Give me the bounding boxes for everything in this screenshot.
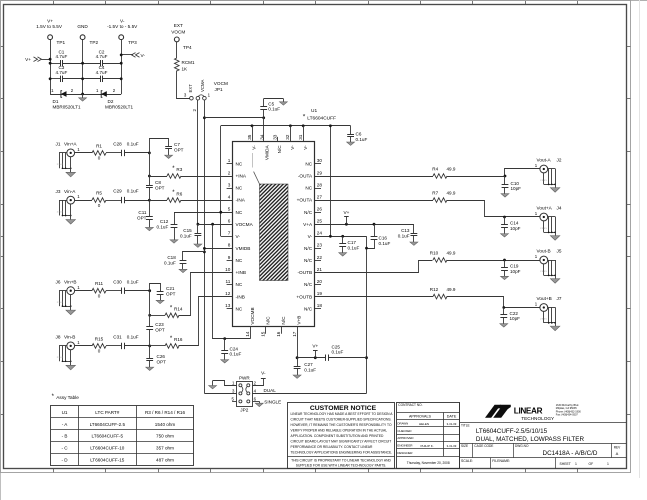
svg-text:TP4: TP4 [183,45,192,50]
svg-text:C13: C13 [401,228,410,233]
svg-text:SINGLE: SINGLE [264,400,281,405]
svg-text:J5: J5 [557,249,562,254]
svg-text:C14: C14 [510,221,519,226]
svg-text:750 ohm: 750 ohm [156,434,174,439]
svg-text:J2: J2 [557,158,562,163]
svg-text:NC: NC [305,162,312,167]
svg-text:N/C: N/C [304,306,313,311]
svg-text:MBR0520LT1: MBR0520LT1 [53,105,81,110]
svg-text:C25: C25 [332,344,341,349]
svg-text:R3: R3 [176,167,182,172]
svg-text:SUPPLIED FOR USE WITH LINEAR T: SUPPLIED FOR USE WITH LINEAR TECHNOLOGY … [296,463,387,467]
svg-text:CIRCUIT THAT MEETS CUSTOMER-SU: CIRCUIT THAT MEETS CUSTOMER-SUPPLIED SPE… [291,418,392,422]
svg-text:OPT: OPT [155,327,165,332]
svg-text:LINEAR: LINEAR [514,406,543,415]
svg-text:49.9: 49.9 [447,250,456,255]
svg-text:14: 14 [245,331,250,337]
svg-text:4.7uF: 4.7uF [96,54,108,59]
svg-text:19: 19 [317,291,323,296]
svg-text:- B: - B [62,434,68,439]
svg-text:0.1uF: 0.1uF [127,189,139,194]
svg-text:MBR0520LT1: MBR0520LT1 [105,105,133,110]
svg-text:V+: V+ [25,57,31,62]
svg-text:17: 17 [292,331,297,337]
svg-text:1.5V to 5.5V: 1.5V to 5.5V [36,24,63,29]
svg-text:OPT: OPT [166,292,176,297]
svg-text:TECHNOLOGY APPLICATIONS ENGINE: TECHNOLOGY APPLICATIONS ENGINEERING FOR … [291,451,393,455]
svg-text:C8: C8 [155,180,161,185]
svg-text:2 3 4 5: 2 3 4 5 [57,211,64,213]
svg-text:- A: - A [62,422,69,427]
svg-text:J4: J4 [557,206,562,211]
svg-text:VMIDB: VMIDB [236,246,251,251]
svg-text:EXT: EXT [188,84,193,93]
svg-text:HELEN: HELEN [419,422,429,426]
svg-text:TP2: TP2 [90,40,99,45]
svg-text:DUAL: DUAL [264,388,277,393]
svg-text:C17: C17 [348,240,357,245]
svg-text:32: 32 [285,134,290,140]
svg-text:R6: R6 [176,191,182,196]
svg-text:APPROVED: APPROVED [397,436,413,440]
svg-text:V-: V- [303,145,308,150]
svg-text:LT6604CUFF-2.5: LT6604CUFF-2.5 [90,422,126,427]
svg-text:31: 31 [298,134,303,140]
svg-text:OF: OF [589,462,594,466]
svg-text:J3: J3 [56,189,61,194]
svg-text:0.1uF: 0.1uF [230,352,242,357]
svg-text:0.1uF: 0.1uF [379,241,391,246]
svg-text:18: 18 [317,303,323,308]
svg-text:2 3 4 5: 2 3 4 5 [57,164,64,166]
svg-text:Vin-B: Vin-B [64,335,75,340]
svg-text:C19: C19 [510,263,519,268]
svg-text:11: 11 [226,279,231,284]
svg-text:C28: C28 [113,142,122,147]
svg-text:23: 23 [317,243,323,248]
svg-text:33: 33 [272,134,277,140]
svg-text:N/C: N/C [281,316,286,325]
svg-text:DWG.NO: DWG.NO [515,444,529,448]
svg-text:PHILIP K.: PHILIP K. [420,444,433,448]
svg-text:0.1uF: 0.1uF [356,137,368,142]
svg-text:C11: C11 [138,210,147,215]
svg-text:3: 3 [228,182,231,187]
svg-text:NC: NC [236,282,243,287]
svg-text:V-: V- [120,19,125,24]
svg-text:21: 21 [317,267,323,272]
svg-text:Vout-A: Vout-A [537,158,552,163]
svg-text:CAGE CODE: CAGE CODE [474,444,493,448]
svg-text:C6: C6 [356,131,362,136]
svg-text:N/C: N/C [277,145,282,154]
svg-text:V-: V- [308,234,313,239]
svg-text:+INA: +INA [236,174,247,179]
svg-text:Vout+A: Vout+A [537,206,553,211]
svg-text:NC: NC [236,210,243,215]
svg-text:12: 12 [225,291,231,296]
svg-text:0.1uF: 0.1uF [332,350,344,355]
svg-text:VMIDA: VMIDA [264,144,269,160]
svg-text:FILENAME:: FILENAME: [492,459,510,463]
svg-text:VOCMA: VOCMA [236,222,254,227]
svg-text:OPT: OPT [174,148,184,153]
svg-text:DESIGNER: DESIGNER [397,451,412,455]
svg-text:6: 6 [228,219,231,224]
svg-text:V-: V- [261,371,266,376]
svg-text:JP2: JP2 [240,408,248,413]
svg-text:APPROVALS: APPROVALS [409,414,432,418]
svg-text:J6: J6 [56,279,61,284]
svg-text:R12: R12 [430,287,439,292]
svg-text:R5: R5 [96,191,102,196]
svg-text:-INA: -INA [236,198,246,203]
svg-text:R14: R14 [174,307,183,312]
svg-text:13: 13 [225,303,231,308]
svg-text:TECHNOLOGY: TECHNOLOGY [521,416,555,421]
svg-text:2: 2 [228,170,231,175]
svg-text:DUAL, MATCHED, LOWPASS FILTER: DUAL, MATCHED, LOWPASS FILTER [476,436,585,443]
svg-text:-OUTA: -OUTA [298,174,313,179]
svg-text:APPLICATION. COMPONENT SUBSTIT: APPLICATION. COMPONENT SUBSTITUTION AND … [291,434,385,438]
svg-text:C30: C30 [113,279,122,284]
svg-text:+INB: +INB [236,270,247,275]
svg-text:30: 30 [317,158,323,163]
svg-text:OPT: OPT [155,186,165,191]
svg-text:10pF: 10pF [511,186,522,191]
svg-text:49.9: 49.9 [447,191,456,196]
svg-text:C10: C10 [511,181,520,186]
svg-text:0.1uF: 0.1uF [268,107,280,112]
svg-text:5: 5 [228,206,231,211]
svg-text:1540 ohm: 1540 ohm [155,422,176,427]
svg-text:EXT: EXT [174,23,183,28]
svg-text:LTC PART#: LTC PART# [95,410,119,415]
svg-text:2 3 4 5: 2 3 4 5 [57,302,64,304]
svg-text:VOCM: VOCM [171,30,185,35]
svg-text:NC: NC [236,306,243,311]
svg-text:- D: - D [61,458,68,463]
svg-text:V-: V- [290,145,295,150]
svg-text:J8: J8 [56,335,61,340]
svg-text:ENGINEER: ENGINEER [397,444,412,448]
svg-text:Vin+B: Vin+B [64,279,77,284]
svg-text:4: 4 [228,194,231,199]
svg-text:0.1uF: 0.1uF [164,261,176,266]
svg-text:LT6604CUFF: LT6604CUFF [307,116,336,122]
svg-text:CIRCUIT BOARD LAYOUT MAY SIGNI: CIRCUIT BOARD LAYOUT MAY SIGNIFICANTLY A… [291,440,392,444]
svg-text:CUSTOMER NOTICE: CUSTOMER NOTICE [310,405,377,412]
svg-text:1: 1 [575,462,577,466]
svg-text:R15: R15 [95,336,104,341]
svg-text:C5: C5 [268,101,274,106]
svg-text:3-31-09: 3-31-09 [447,444,457,448]
svg-text:+OUTB: +OUTB [296,294,312,299]
svg-text:V+: V+ [47,19,53,24]
svg-text:SHEET: SHEET [560,462,571,466]
svg-text:C26: C26 [157,354,166,359]
svg-text:CONTRACT NO.: CONTRACT NO. [398,403,422,407]
svg-text:C27: C27 [304,362,313,367]
svg-text:C7: C7 [174,142,180,147]
svg-text:V-: V- [236,234,241,239]
svg-text:R10: R10 [430,250,439,255]
svg-text:V+A: V+A [303,222,313,227]
svg-text:10pF: 10pF [510,226,521,231]
svg-text:C31: C31 [113,335,122,340]
svg-text:D1: D1 [53,99,59,104]
svg-text:V-: V- [252,145,257,150]
svg-text:NC: NC [236,258,243,263]
svg-text:NC: NC [305,186,312,191]
svg-text:25: 25 [317,219,323,224]
svg-text:OPT: OPT [137,215,147,220]
svg-text:2 3 4 5: 2 3 4 5 [540,180,547,182]
svg-text:NC: NC [236,186,243,191]
svg-text:2 3 4 5: 2 3 4 5 [57,357,64,359]
svg-text:D2: D2 [108,99,114,104]
svg-text:29: 29 [317,170,323,175]
svg-text:Assy Table: Assy Table [56,395,79,400]
svg-text:10: 10 [225,267,231,272]
svg-text:Thursday, November 20, 2008: Thursday, November 20, 2008 [407,461,450,465]
svg-text:C16: C16 [379,236,388,241]
svg-text:26: 26 [317,206,323,211]
svg-text:R11: R11 [95,281,104,286]
svg-text:C23: C23 [155,322,164,327]
svg-text:10pF: 10pF [510,316,521,321]
svg-text:-INB: -INB [236,294,245,299]
svg-text:0.1uF: 0.1uF [304,368,316,373]
svg-text:8: 8 [228,243,231,248]
svg-text:J1: J1 [56,142,61,147]
svg-text:24: 24 [317,231,323,236]
svg-text:LINEAR TECHNOLOGY HAS MADE A B: LINEAR TECHNOLOGY HAS MADE A BEST EFFORT… [291,412,394,416]
svg-text:0: 0 [98,203,101,208]
svg-text:C18: C18 [167,255,176,260]
svg-text:C15: C15 [183,228,192,233]
svg-text:N/C: N/C [304,246,313,251]
svg-text:0.1uF: 0.1uF [180,234,192,239]
svg-text:C12: C12 [160,219,169,224]
svg-text:1: 1 [607,462,609,466]
svg-text:27: 27 [317,194,323,199]
svg-text:1: 1 [228,158,231,163]
svg-text:V+: V+ [343,210,349,215]
svg-text:REV: REV [614,446,621,450]
svg-text:R3 / R6 / R14 / R16: R3 / R6 / R14 / R16 [145,410,186,415]
svg-text:4.7uF: 4.7uF [56,70,68,75]
svg-text:LT6604CUFF-10: LT6604CUFF-10 [90,446,125,451]
svg-text:LT6604CUFF-2.5/5/10/15: LT6604CUFF-2.5/5/10/15 [476,428,548,435]
svg-text:R1: R1 [96,143,102,148]
svg-text:JP1: JP1 [215,87,223,92]
svg-text:C29: C29 [113,189,122,194]
svg-text:HOWEVER, IT REMAINS THE CUSTOM: HOWEVER, IT REMAINS THE CUSTOMER'S RESPO… [291,423,392,427]
svg-text:2 3 4 5: 2 3 4 5 [540,228,547,230]
svg-text:C24: C24 [230,346,239,351]
svg-text:C22: C22 [510,311,519,316]
svg-text:N/C: N/C [304,210,313,215]
svg-text:22: 22 [317,255,323,260]
svg-text:35: 35 [247,134,252,140]
svg-text:N/C: N/C [265,316,270,325]
svg-text:487 ohm: 487 ohm [156,458,174,463]
svg-text:R16: R16 [174,337,183,342]
svg-text:SCALE:: SCALE: [461,459,473,463]
svg-text:0.1uF: 0.1uF [127,279,139,284]
svg-text:TITLE: TITLE [461,424,470,428]
svg-text:0: 0 [98,156,101,161]
svg-text:V+B: V+B [297,316,302,325]
svg-text:THIS CIRCUIT IS PROPRIETARY TO: THIS CIRCUIT IS PROPRIETARY TO LINEAR TE… [291,459,391,463]
svg-text:PWR: PWR [239,375,250,380]
svg-text:0.1uF: 0.1uF [398,234,410,239]
svg-text:Vin-A: Vin-A [64,189,76,194]
svg-text:A: A [616,451,619,456]
svg-text:Fax: (408)434-0507: Fax: (408)434-0507 [556,414,579,417]
svg-text:J7: J7 [557,296,562,301]
svg-text:V-: V- [141,53,146,58]
svg-text:357 ohm: 357 ohm [156,446,174,451]
svg-text:VOCMB: VOCMB [250,307,255,324]
svg-text:VCMA: VCMA [200,79,205,92]
svg-text:0.1uF: 0.1uF [127,335,139,340]
svg-text:LT6604CUFF-5: LT6604CUFF-5 [92,434,124,439]
svg-text:VOCM: VOCM [214,81,228,86]
svg-text:-1.5V to - 5.5V: -1.5V to - 5.5V [107,24,138,29]
svg-text:U1: U1 [311,108,317,114]
svg-text:20: 20 [317,279,323,284]
svg-text:3-31-09: 3-31-09 [447,422,457,426]
svg-text:4.7uF: 4.7uF [56,54,68,59]
svg-text:0.1uF: 0.1uF [127,142,139,147]
svg-text:2 3 4 5: 2 3 4 5 [540,319,547,321]
svg-text:34: 34 [260,134,265,140]
svg-text:U1: U1 [62,410,68,415]
svg-text:7: 7 [228,231,231,236]
svg-text:4.7uF: 4.7uF [96,70,108,75]
svg-text:16: 16 [276,331,281,337]
svg-text:TP3: TP3 [128,40,137,45]
svg-text:TP1: TP1 [57,40,66,45]
svg-text:0: 0 [98,294,101,299]
svg-text:OPT: OPT [157,360,167,365]
svg-text:C21: C21 [166,286,175,291]
svg-text:NC: NC [236,162,243,167]
svg-text:15: 15 [261,331,266,337]
svg-text:49.9: 49.9 [447,166,456,171]
svg-text:N/C: N/C [304,282,313,287]
svg-text:Vout-B: Vout-B [537,249,551,254]
svg-text:28: 28 [317,182,323,187]
svg-text:LT6604CUFF-15: LT6604CUFF-15 [90,458,125,463]
svg-text:N/C: N/C [304,258,313,263]
svg-text:49.9: 49.9 [447,287,456,292]
svg-text:0.1uF: 0.1uF [157,225,169,230]
svg-text:RCM1: RCM1 [182,60,195,65]
svg-text:R7: R7 [432,191,438,196]
svg-text:- C: - C [61,446,68,451]
svg-text:DATE: DATE [447,414,457,418]
svg-text:DC1418A - A/B/C/D: DC1418A - A/B/C/D [543,450,598,457]
svg-text:R4: R4 [432,166,438,171]
svg-text:GND: GND [77,24,88,29]
svg-text:Vout+B: Vout+B [537,296,552,301]
svg-text:SIZE: SIZE [461,444,468,448]
svg-text:2 3 4 5: 2 3 4 5 [540,271,547,273]
svg-text:10pF: 10pF [510,269,521,274]
svg-text:9: 9 [228,255,231,260]
svg-text:Vin+A: Vin+A [64,142,77,147]
svg-text:VERIFY PROPER AND RELIABLE OPE: VERIFY PROPER AND RELIABLE OPERATION IN … [291,429,388,433]
svg-text:+OUTA: +OUTA [297,198,313,203]
svg-text:DRAWN: DRAWN [397,422,408,426]
svg-text:0: 0 [98,349,101,354]
svg-text:-OUTB: -OUTB [298,270,313,275]
svg-text:1K: 1K [182,67,189,72]
svg-text:V+: V+ [312,343,318,348]
svg-text:0.1uF: 0.1uF [348,245,360,250]
svg-text:CHECKED: CHECKED [397,429,411,433]
svg-text:PERFORMANCE OR RELIABILITY. CO: PERFORMANCE OR RELIABILITY. CONTACT LINE… [291,445,374,449]
